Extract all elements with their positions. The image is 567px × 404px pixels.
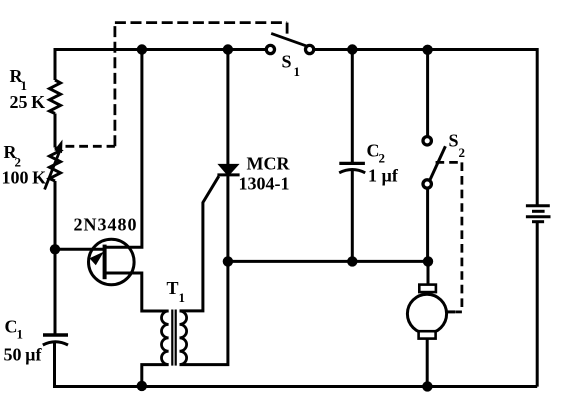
junction dot mid bus / SCR cathode	[223, 256, 233, 266]
transformer T1 core line right	[175, 310, 177, 366]
transistor Q1 emitter arrowhead	[90, 252, 104, 266]
wire C2 branch top	[351, 50, 354, 164]
capacitor C2 top plate	[339, 162, 365, 165]
svg-text:2: 2	[459, 145, 466, 160]
wire SCR cathode down to T1 secondary bottom lead	[180, 176, 228, 365]
battery B1 plate 3 long	[526, 215, 551, 218]
switch S1 blade	[271, 33, 307, 46]
wire C1 bottom lead and bottom bus	[55, 342, 538, 387]
dashed link R2 wiper horizontal segment	[66, 145, 115, 148]
dashed link vertical riser at x=115	[114, 23, 117, 147]
wire top bus right section (S1 right contact to top-right corner down to battery)	[314, 50, 538, 205]
junction dot mid bus / motor branch	[423, 256, 433, 266]
svg-text:S: S	[449, 131, 459, 151]
dashed link horizontal to motor tab	[455, 310, 462, 313]
svg-text:100 K: 100 K	[2, 168, 47, 188]
wire left bus (R2 bottom down to C1 top plate)	[54, 181, 57, 335]
dashed link S2 blade horizontal segment	[436, 161, 462, 164]
junction dot mid bus / C2 bottom	[347, 256, 357, 266]
junction dot top bus / SCR anode branch	[223, 44, 233, 54]
wire T1 primary bottom to bottom bus	[142, 365, 169, 387]
capacitor C1 top plate	[43, 333, 68, 336]
battery B1 plate 1 long	[526, 204, 550, 207]
motor M1 bottom brush	[419, 331, 436, 338]
svg-text:S: S	[282, 52, 292, 72]
svg-text:1: 1	[17, 327, 24, 342]
wire S2 branch top	[426, 50, 429, 137]
switch S1 left contact	[266, 45, 274, 53]
wire motor right tab	[447, 310, 456, 313]
svg-text:2: 2	[379, 151, 386, 166]
wire S2 branch bottom	[426, 188, 429, 261]
wire top bus left section (from top-left corner to S1 left contact)	[55, 50, 266, 81]
motor M1 body circle	[407, 294, 446, 333]
dashed link drop to S1 blade	[286, 23, 289, 40]
capacitor C2 bottom curved plate	[339, 170, 365, 173]
battery B1 plate 4 short	[532, 220, 544, 223]
wire right bus below battery	[536, 223, 539, 387]
switch S2 top contact	[423, 137, 431, 145]
junction dot bottom bus / motor bottom	[422, 381, 432, 391]
transistor Q1 circle (2N3480)	[89, 239, 135, 285]
junction dot top bus / collector branch	[137, 44, 147, 54]
svg-text:T: T	[167, 278, 179, 298]
junction dot bottom bus / T1 primary	[137, 381, 147, 391]
junction dot top bus / C2 branch	[347, 44, 357, 54]
svg-text:1 µf: 1 µf	[368, 166, 399, 186]
transistor Q1 base bar	[103, 245, 107, 280]
wire mid bus (SCR cathode junction to motor branch)	[228, 260, 428, 263]
svg-text:1: 1	[21, 78, 28, 93]
switch S2 blade	[430, 146, 446, 180]
rheostat R2 zigzag	[50, 148, 61, 182]
rheostat R2 wiper arrow shaft	[45, 152, 60, 190]
transformer T1 primary winding (left, 4 bumps)	[162, 311, 169, 365]
transformer T1 core line left	[171, 310, 173, 366]
wire collector branch (top bus down to transistor)	[105, 50, 142, 248]
dashed link top horizontal run to S1	[115, 21, 287, 24]
switch S2 bottom contact	[423, 180, 431, 188]
wire between R1 and R2	[54, 114, 57, 148]
switch S1 right contact	[306, 45, 314, 53]
rheostat R2 wiper arrowhead	[54, 140, 62, 154]
wire SCR anode branch (top bus down to SCR)	[226, 50, 229, 165]
wire motor top lead	[427, 261, 430, 284]
battery B1 plate 2 short	[532, 210, 545, 213]
svg-text:MCR: MCR	[247, 154, 291, 174]
svg-text:2N3480: 2N3480	[74, 215, 138, 235]
motor M1 top brush	[419, 285, 436, 293]
dashed link vertical down to motor	[460, 162, 463, 312]
junction dot left bus / base lead	[50, 244, 60, 254]
capacitor C1 bottom curved plate	[43, 342, 68, 345]
resistor R1 zigzag	[50, 80, 61, 114]
svg-text:1304-1: 1304-1	[239, 174, 290, 194]
SCR U1 cathode bar	[217, 173, 239, 176]
wire SCR gate to T1 secondary top	[180, 176, 219, 311]
junction dot top bus / S2 branch	[422, 45, 432, 55]
svg-text:1: 1	[294, 64, 301, 79]
svg-text:1: 1	[179, 290, 186, 305]
wire base lead (left bus to transistor bar)	[55, 248, 105, 251]
wire emitter lead (transistor to T1 primary top)	[105, 273, 169, 311]
svg-text:50 µf: 50 µf	[4, 345, 43, 365]
wire motor bottom lead	[426, 339, 429, 387]
wire C2 branch bottom	[351, 171, 354, 262]
svg-text:25 K: 25 K	[10, 92, 46, 112]
SCR U1 anode triangle (MCR 1304-1)	[217, 164, 239, 174]
transformer T1 secondary winding (right, 4 bumps)	[180, 311, 187, 365]
